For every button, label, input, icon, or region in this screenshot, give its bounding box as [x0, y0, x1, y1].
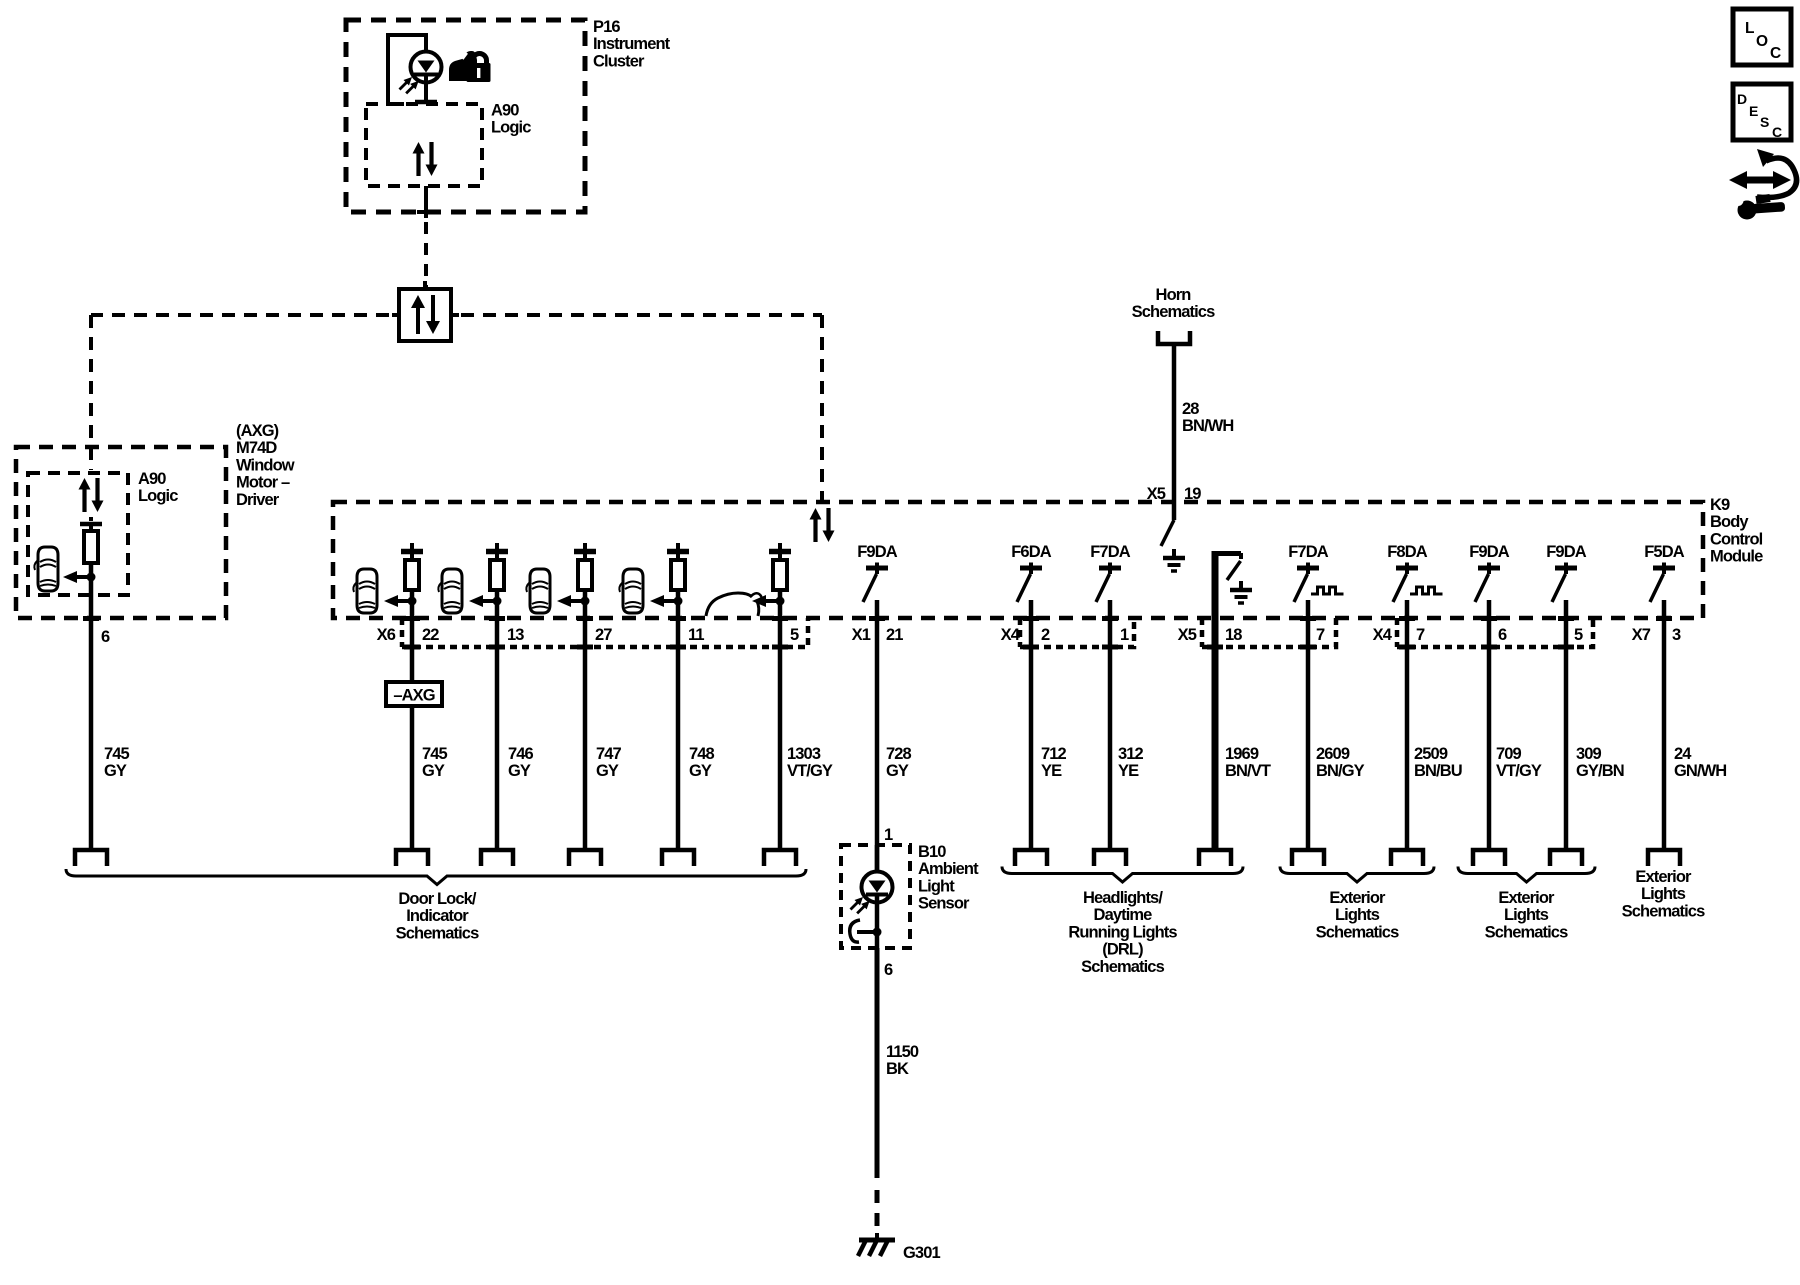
- svg-text:L: L: [1745, 20, 1754, 37]
- svg-text:2509: 2509: [1414, 745, 1448, 763]
- svg-text:VT/GY: VT/GY: [1496, 762, 1542, 780]
- svg-text:GY: GY: [596, 762, 619, 780]
- svg-text:GY/BN: GY/BN: [1576, 762, 1624, 780]
- svg-text:F7DA: F7DA: [1090, 543, 1130, 561]
- svg-text:F8DA: F8DA: [1387, 543, 1427, 561]
- svg-text:Lights: Lights: [1335, 906, 1380, 924]
- svg-text:5: 5: [1574, 626, 1583, 644]
- svg-text:Exterior: Exterior: [1635, 868, 1692, 886]
- svg-text:BN/VT: BN/VT: [1225, 762, 1271, 780]
- svg-text:745: 745: [422, 745, 448, 763]
- svg-text:P16: P16: [593, 18, 620, 36]
- svg-text:F9DA: F9DA: [1546, 543, 1586, 561]
- svg-text:X5: X5: [1178, 626, 1197, 644]
- svg-text:C: C: [1772, 124, 1782, 140]
- svg-text:1303: 1303: [787, 745, 821, 763]
- svg-text:Cluster: Cluster: [593, 52, 645, 70]
- svg-text:Running Lights: Running Lights: [1068, 923, 1177, 941]
- svg-text:Schematics: Schematics: [1081, 958, 1164, 976]
- svg-text:Module: Module: [1710, 548, 1763, 566]
- svg-text:G301: G301: [903, 1244, 940, 1262]
- svg-text:X7: X7: [1632, 626, 1651, 644]
- svg-text:Schematics: Schematics: [1622, 902, 1705, 920]
- svg-text:B10: B10: [918, 843, 946, 861]
- svg-text:18: 18: [1225, 626, 1242, 644]
- svg-text:28: 28: [1182, 400, 1199, 418]
- svg-text:748: 748: [689, 745, 715, 763]
- svg-text:745: 745: [104, 745, 130, 763]
- svg-text:309: 309: [1576, 745, 1602, 763]
- svg-text:Instrument: Instrument: [593, 35, 671, 53]
- svg-text:Sensor: Sensor: [918, 895, 970, 913]
- svg-text:O: O: [1756, 33, 1768, 50]
- svg-text:VT/GY: VT/GY: [787, 762, 833, 780]
- svg-text:X6: X6: [377, 626, 396, 644]
- svg-text:24: 24: [1674, 745, 1692, 763]
- svg-text:712: 712: [1041, 745, 1067, 763]
- svg-text:Motor –: Motor –: [236, 474, 290, 492]
- svg-text:Schematics: Schematics: [396, 924, 479, 942]
- svg-text:Daytime: Daytime: [1094, 906, 1153, 924]
- svg-text:5: 5: [790, 626, 799, 644]
- svg-text:GY: GY: [422, 762, 445, 780]
- svg-text:Window: Window: [236, 456, 295, 474]
- svg-text:X4: X4: [1373, 626, 1393, 644]
- svg-text:BN/BU: BN/BU: [1414, 762, 1462, 780]
- svg-text:1: 1: [1120, 626, 1129, 644]
- svg-text:K9: K9: [1710, 496, 1730, 514]
- svg-text:(AXG): (AXG): [236, 422, 279, 440]
- svg-text:21: 21: [886, 626, 903, 644]
- svg-text:Ambient: Ambient: [918, 860, 979, 878]
- svg-text:Horn: Horn: [1156, 286, 1192, 304]
- svg-text:Body: Body: [1710, 513, 1749, 531]
- svg-text:A90: A90: [491, 102, 519, 120]
- svg-text:13: 13: [507, 626, 524, 644]
- svg-text:X1: X1: [852, 626, 871, 644]
- svg-text:11: 11: [688, 626, 704, 644]
- svg-text:6: 6: [101, 628, 110, 646]
- svg-text:F9DA: F9DA: [1469, 543, 1509, 561]
- svg-text:Schematics: Schematics: [1132, 303, 1215, 321]
- svg-text:F6DA: F6DA: [1011, 543, 1051, 561]
- svg-text:Door Lock/: Door Lock/: [398, 890, 476, 908]
- svg-text:7: 7: [1316, 626, 1325, 644]
- svg-text:E: E: [1749, 103, 1758, 119]
- svg-text:GY: GY: [886, 762, 909, 780]
- svg-text:BK: BK: [886, 1060, 909, 1078]
- svg-text:Driver: Driver: [236, 491, 280, 509]
- svg-text:YE: YE: [1118, 762, 1139, 780]
- svg-text:YE: YE: [1041, 762, 1062, 780]
- svg-text:(DRL): (DRL): [1102, 941, 1143, 959]
- svg-text:BN/GY: BN/GY: [1316, 762, 1365, 780]
- svg-text:GN/WH: GN/WH: [1674, 762, 1726, 780]
- svg-text:C: C: [1770, 45, 1781, 62]
- svg-text:27: 27: [595, 626, 612, 644]
- svg-text:GY: GY: [508, 762, 531, 780]
- svg-text:Lights: Lights: [1641, 885, 1686, 903]
- svg-text:X5: X5: [1147, 485, 1166, 503]
- svg-text:Headlights/: Headlights/: [1083, 889, 1163, 907]
- svg-text:6: 6: [884, 961, 893, 979]
- svg-text:709: 709: [1496, 745, 1522, 763]
- svg-text:F9DA: F9DA: [857, 543, 897, 561]
- svg-text:1: 1: [884, 826, 893, 844]
- svg-text:Lights: Lights: [1504, 906, 1549, 924]
- svg-text:1150: 1150: [886, 1043, 919, 1061]
- svg-text:GY: GY: [104, 762, 127, 780]
- svg-text:X4: X4: [1001, 626, 1021, 644]
- svg-text:GY: GY: [689, 762, 712, 780]
- svg-text:22: 22: [422, 626, 439, 644]
- svg-text:728: 728: [886, 745, 912, 763]
- svg-text:2609: 2609: [1316, 745, 1350, 763]
- svg-text:S: S: [1760, 114, 1769, 130]
- svg-text:3: 3: [1672, 626, 1681, 644]
- svg-text:6: 6: [1498, 626, 1507, 644]
- svg-text:F5DA: F5DA: [1644, 543, 1684, 561]
- svg-text:Control: Control: [1710, 530, 1763, 548]
- svg-text:7: 7: [1416, 626, 1425, 644]
- svg-text:747: 747: [596, 745, 622, 763]
- svg-text:1969: 1969: [1225, 745, 1259, 763]
- svg-text:Light: Light: [918, 877, 955, 895]
- svg-text:Exterior: Exterior: [1329, 889, 1386, 907]
- svg-text:746: 746: [508, 745, 534, 763]
- svg-text:Indicator: Indicator: [406, 907, 469, 925]
- svg-text:Schematics: Schematics: [1485, 923, 1568, 941]
- svg-text:Logic: Logic: [491, 119, 531, 137]
- svg-text:312: 312: [1118, 745, 1144, 763]
- svg-text:D: D: [1737, 91, 1747, 107]
- svg-text:–AXG: –AXG: [393, 687, 434, 705]
- svg-text:Schematics: Schematics: [1316, 923, 1399, 941]
- svg-text:Logic: Logic: [138, 487, 178, 505]
- svg-text:F7DA: F7DA: [1288, 543, 1328, 561]
- svg-text:A90: A90: [138, 470, 166, 488]
- svg-text:Exterior: Exterior: [1498, 889, 1555, 907]
- svg-text:19: 19: [1184, 485, 1201, 503]
- svg-text:M74D: M74D: [236, 439, 277, 457]
- svg-text:2: 2: [1041, 626, 1050, 644]
- svg-text:BN/WH: BN/WH: [1182, 417, 1233, 435]
